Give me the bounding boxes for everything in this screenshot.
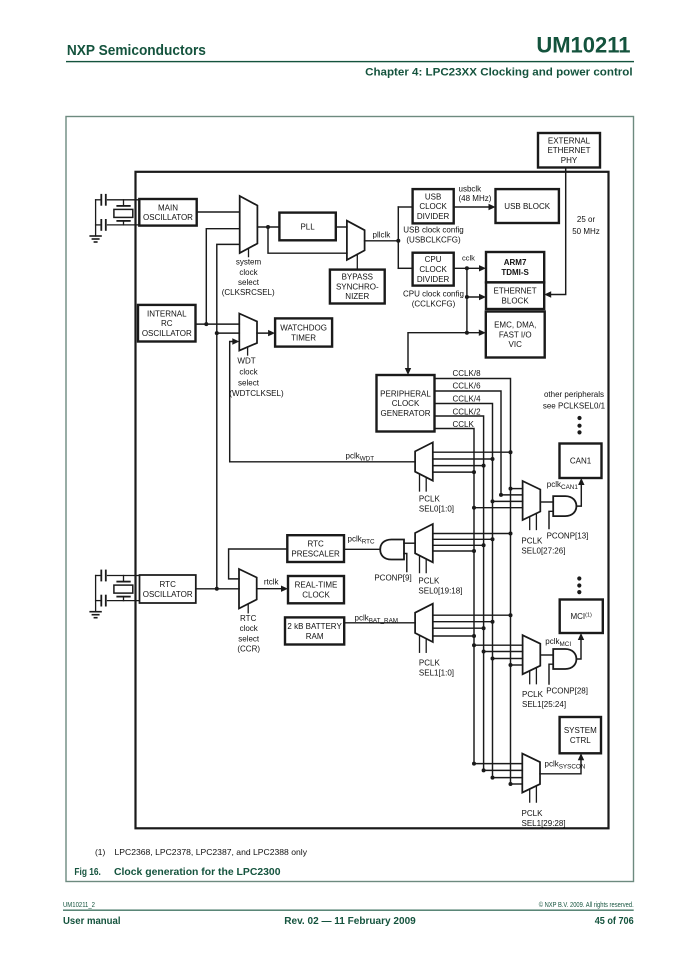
svg-text:RC: RC: [161, 319, 173, 328]
svg-text:(CCR): (CCR): [237, 645, 260, 654]
svg-text:CLOCK: CLOCK: [302, 590, 330, 599]
svg-text:OSCILLATOR: OSCILLATOR: [143, 213, 193, 222]
capacitor C3 (RTC osc top): [101, 571, 106, 581]
wire PCLKSEL0_19_18 mux to AND: [404, 542, 415, 544]
svg-text:clock: clock: [239, 367, 258, 376]
arrow into EMC: [479, 330, 486, 336]
wire MCI pclk mux in2: [484, 651, 523, 653]
figure frame: [66, 117, 634, 882]
box INTERNAL RC OSCILLATOR: [138, 305, 196, 342]
svg-text:OSCILLATOR: OSCILLATOR: [142, 329, 192, 338]
svg-text:VIC: VIC: [509, 340, 523, 349]
svg-text:pclkWDT: pclkWDT: [346, 451, 375, 462]
wire rtc_osc to CCR mux: [196, 588, 239, 590]
svg-text:BLOCK: BLOCK: [502, 297, 530, 306]
wire usbclk to USB BLOCK: [454, 206, 492, 208]
box ETHERNET BLOCK: [486, 282, 544, 309]
svg-text:Rev. 02 — 11 February 2009: Rev. 02 — 11 February 2009: [284, 916, 416, 927]
junction wdt in3: [482, 464, 486, 468]
svg-text:RAM: RAM: [306, 632, 324, 641]
crystal X1 (main oscillator): [114, 200, 133, 225]
box EMC DMA FAST I/O VIC: [486, 312, 545, 358]
svg-text:PCONP[28]: PCONP[28]: [546, 687, 588, 696]
junction cclk arm7: [465, 266, 469, 270]
junction bat in4: [472, 634, 476, 638]
junction syscon in2: [482, 768, 486, 772]
svg-text:ARM7: ARM7: [504, 258, 527, 267]
svg-text:PCLK: PCLK: [521, 536, 543, 545]
wire RTC pclk mux in1: [433, 533, 511, 535]
wire WDT pclk mux in2: [433, 458, 493, 460]
svg-text:pllclk: pllclk: [373, 230, 392, 239]
wire sysclk bypass to PLL-select mux: [268, 227, 347, 253]
junction rtcp in3: [482, 543, 486, 547]
wire pllclk vertical: [397, 207, 399, 268]
svg-text:pclkCAN1: pclkCAN1: [547, 480, 579, 491]
arrow pclkCAN1 into CAN1: [578, 478, 584, 485]
wire MCI pclk mux in3: [493, 658, 523, 660]
svg-text:25 or: 25 or: [577, 215, 596, 224]
junction rtcp in4: [472, 549, 476, 553]
junction pllclk: [396, 239, 400, 243]
junction rtcp in1: [509, 532, 513, 536]
junction bat in1: [509, 613, 513, 617]
wire PCONP28 input: [549, 664, 553, 684]
svg-text:WDT: WDT: [237, 357, 255, 366]
wire irc_osc output: [196, 323, 240, 325]
wire CCLK/4: [435, 404, 493, 778]
AND gate (PCONP[13] CAN1): [553, 496, 576, 516]
wire PLL output to PLL-select mux: [336, 226, 347, 228]
wire cclk vertical: [466, 268, 468, 332]
svg-text:BYPASS: BYPASS: [342, 273, 373, 282]
mux: PCLK SEL0[27:26] (CAN1 pclk): [523, 481, 541, 530]
wire RTCX1/RTCX2 rails: [96, 576, 140, 612]
junction can in3: [491, 499, 495, 503]
wire BAT pclk mux in4: [433, 635, 474, 637]
svg-text:45 of 706: 45 of 706: [595, 916, 634, 927]
wire MCI pclk mux in4: [511, 664, 523, 666]
wire main_osc to CLKSRCSEL mux: [197, 211, 240, 213]
svg-text:pclkSYSCON: pclkSYSCON: [545, 760, 586, 771]
svg-text:MAIN: MAIN: [158, 203, 178, 212]
svg-text:RTC: RTC: [240, 614, 257, 623]
svg-text:PCLK: PCLK: [419, 494, 441, 503]
svg-text:clock: clock: [239, 268, 258, 277]
wire pclkBAT_RAM: [344, 622, 415, 624]
wire CAN pclk mux in4: [474, 507, 523, 509]
wire CAN pclk mux in2: [501, 494, 523, 496]
wire pclkWDT: [230, 342, 415, 462]
wire SYSCON pclk mux in3: [493, 777, 523, 779]
svg-text:SEL1[25:24]: SEL1[25:24]: [522, 700, 566, 709]
wire RTC pclk mux in2: [433, 538, 493, 540]
svg-text:(1): (1): [95, 847, 105, 857]
junction wdt in1: [509, 450, 513, 454]
junction mci in1: [472, 643, 476, 647]
mux: system clock select (CLKSRCSEL): [240, 196, 258, 257]
box CPU CLOCK DIVIDER: [413, 253, 454, 286]
svg-text:select: select: [238, 378, 260, 387]
junction mci in2: [482, 650, 486, 654]
mux: RTC clock select (CCR): [239, 569, 257, 613]
svg-text:SYNCHRO-: SYNCHRO-: [336, 282, 379, 291]
wire WDT pclk mux in3: [433, 465, 484, 467]
junction rtc osc: [215, 587, 219, 591]
svg-text:PCLK: PCLK: [418, 576, 440, 585]
svg-text:OSCILLATOR: OSCILLATOR: [143, 590, 193, 599]
svg-text:CCLK/8: CCLK/8: [453, 369, 482, 378]
svg-text:EMC, DMA,: EMC, DMA,: [494, 321, 536, 330]
svg-text:PCLK: PCLK: [419, 659, 441, 668]
svg-text:REAL-TIME: REAL-TIME: [295, 581, 338, 590]
wire rtc branch to WDTCLKSEL: [217, 332, 240, 334]
svg-text:2 kB BATTERY: 2 kB BATTERY: [287, 622, 342, 631]
wire PCONP9 input: [404, 554, 407, 572]
wire pllclk to CPU clock divider: [398, 267, 412, 269]
svg-text:CLOCK: CLOCK: [392, 399, 420, 408]
svg-text:system: system: [236, 258, 262, 267]
box ARM7 TDMI-S: [486, 252, 544, 282]
box EXTERNAL ETHERNET PHY: [538, 133, 600, 168]
svg-text:PLL: PLL: [300, 222, 315, 231]
AND gate (PCONP[9] RTC): [380, 540, 404, 560]
svg-text:PHY: PHY: [561, 156, 578, 165]
wire irc_osc branch up to CLKSRCSEL: [206, 229, 239, 324]
svg-text:other peripherals: other peripherals: [544, 390, 604, 399]
header and footer: [63, 33, 634, 928]
arrow into USB BLOCK: [489, 204, 496, 210]
crystal X2 (RTC oscillator): [114, 576, 133, 601]
svg-text:CCLK/4: CCLK/4: [453, 395, 482, 404]
box RTC OSCILLATOR: [140, 575, 196, 603]
svg-text:pclkMCI: pclkMCI: [545, 637, 571, 648]
box USB CLOCK DIVIDER: [413, 189, 454, 223]
junction wdt in4: [472, 470, 476, 474]
box BYPASS SYNCHRONIZER: [330, 270, 385, 304]
box CAN1: [560, 444, 602, 479]
svg-text:CAN1: CAN1: [570, 457, 592, 466]
junction bat in3: [482, 626, 486, 630]
LPC2300 chip boundary: [136, 172, 609, 829]
wire RTC PRESCALER to CCR mux: [229, 549, 288, 579]
wire pclkSYSCON: [540, 757, 581, 774]
arrow into WATCHDOG TIMER: [268, 330, 275, 336]
svg-text:CPU: CPU: [425, 255, 442, 264]
svg-text:USB clock config: USB clock config: [403, 226, 463, 235]
junction bat in2: [491, 620, 495, 624]
wire wdtclk to WATCHDOG TIMER: [257, 332, 272, 334]
svg-text:rtclk: rtclk: [264, 578, 280, 587]
arrow pclkMCI into MCI: [578, 633, 584, 640]
wire CCLK/6: [435, 391, 502, 495]
junction can in1: [509, 487, 513, 491]
wire pclkMCI: [576, 637, 581, 660]
box MCI: [560, 600, 603, 634]
wire sysclk to PLL: [257, 226, 279, 228]
box USB BLOCK: [496, 189, 559, 223]
mux: PCLK SEL1[1:0] (BAT RAM pclk): [415, 604, 433, 653]
junction wdt in2: [491, 457, 495, 461]
svg-text:TIMER: TIMER: [291, 333, 316, 342]
wire WDT pclk mux in1: [433, 451, 511, 453]
AND gate (PCONP[28] MCI): [553, 649, 576, 669]
svg-text:Clock generation for the LPC23: Clock generation for the LPC2300: [114, 867, 281, 878]
svg-text:SEL1[29:28]: SEL1[29:28]: [522, 819, 566, 828]
wire pllclk to USB clock divider: [398, 206, 412, 208]
svg-text:NIZER: NIZER: [345, 292, 369, 301]
svg-text:DIVIDER: DIVIDER: [417, 212, 450, 221]
wire cclk to ETHERNET BLOCK: [467, 296, 484, 298]
svg-text:(48 MHz): (48 MHz): [459, 194, 492, 203]
svg-text:UM10211: UM10211: [536, 33, 630, 58]
ground (main osc): [90, 236, 101, 242]
mux: PCLK SEL0[1:0] (WDT pclk): [415, 442, 433, 491]
wire RTC pclk mux in3: [433, 544, 484, 546]
svg-text:ETHERNET: ETHERNET: [547, 146, 590, 155]
svg-text:PERIPHERAL: PERIPHERAL: [380, 389, 431, 398]
junction mci in4: [509, 663, 513, 667]
wire CAN pclk mux in3: [493, 500, 523, 502]
svg-text:GENERATOR: GENERATOR: [381, 409, 431, 418]
wire CCLK: [435, 429, 475, 764]
arrow into ETHERNET BLOCK left: [479, 294, 486, 300]
svg-text:RTC: RTC: [160, 580, 177, 589]
box PLL: [279, 213, 335, 241]
wire pllclk: [365, 240, 399, 242]
box WATCHDOG TIMER: [275, 318, 332, 346]
wire MCI pclk mux in1: [474, 644, 523, 646]
box MAIN OSCILLATOR: [139, 199, 196, 226]
box REAL-TIME CLOCK: [288, 576, 344, 603]
svg-text:USB BLOCK: USB BLOCK: [504, 202, 550, 211]
svg-text:USB: USB: [425, 192, 441, 201]
svg-text:CLOCK: CLOCK: [419, 202, 447, 211]
capacitor C1 (main osc top): [101, 195, 106, 205]
svg-text:TDMI-S: TDMI-S: [501, 268, 529, 277]
capacitor C2 (main osc bottom): [101, 220, 106, 230]
wire CCLK/2: [435, 416, 484, 770]
svg-text:(USBCLKCFG): (USBCLKCFG): [406, 235, 461, 244]
svg-text:(CCLKCFG): (CCLKCFG): [412, 299, 456, 308]
svg-text:SEL0[1:0]: SEL0[1:0]: [419, 505, 454, 514]
svg-text:RTC: RTC: [307, 540, 324, 549]
mux: PCLK SEL1[25:24] (MCI pclk): [523, 635, 541, 684]
wire pclkRTC AND to RTC PRESCALER: [344, 548, 380, 550]
wire rtc_osc branch up to CLKSRCSEL: [217, 244, 240, 588]
wire cclk to ARM7: [454, 267, 482, 269]
svg-text:select: select: [238, 278, 260, 287]
svg-text:see PCLKSEL0/1: see PCLKSEL0/1: [543, 401, 606, 410]
svg-text:UM10211_2: UM10211_2: [63, 902, 95, 909]
mux: PCLK SEL0[19:18] (RTC pclk): [415, 524, 433, 573]
wire cclk to EMC and peripheral clock generator: [408, 333, 483, 372]
wire BAT pclk mux in2: [433, 621, 493, 623]
arrow pclkSYSCON into SYSTEM CTRL: [578, 753, 584, 760]
svg-text:EXTERNAL: EXTERNAL: [548, 136, 591, 145]
wire SYSCON pclk mux in1: [474, 763, 522, 765]
svg-text:PCONP[13]: PCONP[13]: [547, 531, 589, 540]
svg-text:PCLK: PCLK: [522, 809, 544, 818]
svg-text:WATCHDOG: WATCHDOG: [280, 324, 327, 333]
svg-text:DIVIDER: DIVIDER: [417, 275, 450, 284]
svg-text:PRESCALER: PRESCALER: [291, 549, 340, 558]
svg-text:User manual: User manual: [63, 916, 121, 927]
arrow into REAL-TIME CLOCK: [281, 586, 288, 592]
svg-text:© NXP B.V. 2009. All rights re: © NXP B.V. 2009. All rights reserved.: [539, 901, 634, 909]
mux: WDT clock select (WDTCLKSEL): [239, 314, 257, 356]
svg-text:SEL0[27:26]: SEL0[27:26]: [521, 547, 565, 556]
svg-text:PCLK: PCLK: [522, 690, 544, 699]
svg-text:select: select: [238, 634, 260, 643]
junction cclk eth: [465, 295, 469, 299]
junction syscon in4: [509, 782, 513, 786]
junction rtc wdt: [215, 331, 219, 335]
svg-text:50 MHz: 50 MHz: [572, 227, 600, 236]
junction can in2: [499, 493, 503, 497]
wire BAT pclk mux in3: [433, 627, 484, 629]
svg-text:clock: clock: [240, 624, 259, 633]
wire rtclk to REAL-TIME CLOCK: [257, 588, 285, 590]
svg-text:CLOCK: CLOCK: [419, 265, 447, 274]
svg-text:(WDTCLKSEL): (WDTCLKSEL): [229, 389, 284, 398]
svg-text:SEL1[1:0]: SEL1[1:0]: [419, 669, 454, 678]
arrow into ARM7: [479, 265, 486, 271]
svg-text:CTRL: CTRL: [570, 736, 591, 745]
wire BAT pclk mux in1: [433, 614, 511, 616]
svg-text:INTERNAL: INTERNAL: [147, 309, 187, 318]
ground (RTC osc): [90, 612, 101, 618]
wire CAN pclk mux in1: [511, 488, 523, 490]
svg-text:SEL0[19:18]: SEL0[19:18]: [418, 587, 462, 596]
mux: PCLK SEL1[29:28] (SYSCON pclk): [522, 754, 540, 803]
arrow pclkWDT into WDTCLKSEL mux: [232, 338, 239, 344]
svg-text:FAST I/O: FAST I/O: [499, 330, 532, 339]
junction mci in3: [491, 657, 495, 661]
svg-text:LPC2368, LPC2378, LPC2387, and: LPC2368, LPC2378, LPC2387, and LPC2388 o…: [115, 847, 308, 857]
svg-text:CCLK: CCLK: [453, 420, 475, 429]
svg-text:(CLKSRCSEL): (CLKSRCSEL): [222, 288, 275, 297]
box SYSTEM CTRL: [560, 717, 601, 753]
svg-text:ETHERNET: ETHERNET: [494, 287, 537, 296]
wire SYSCON pclk mux in4: [511, 783, 523, 785]
mux: PLL select: [347, 221, 365, 270]
svg-text:usbclk: usbclk: [459, 185, 483, 194]
wire PCONP13 input: [549, 511, 553, 528]
box PERIPHERAL CLOCK GENERATOR: [377, 375, 435, 432]
node other-peripherals dots lower: [577, 576, 581, 594]
junction cclk emc: [465, 331, 469, 335]
box RTC PRESCALER: [287, 535, 344, 562]
wire CAN mux to AND: [540, 501, 553, 503]
svg-text:cclk: cclk: [462, 253, 475, 262]
capacitor C4 (RTC osc bottom): [101, 596, 106, 606]
arrow from PHY into ETHERNET BLOCK: [544, 291, 551, 297]
junction rtcp in2: [491, 537, 495, 541]
wire SYSCON pclk mux in2: [484, 769, 523, 771]
svg-text:Chapter 4: LPC23XX Clocking an: Chapter 4: LPC23XX Clocking and power co…: [365, 67, 633, 79]
junction syscon in3: [491, 776, 495, 780]
junction syscon in1: [472, 762, 476, 766]
svg-text:CCLK/2: CCLK/2: [453, 407, 482, 416]
svg-text:pclkRTC: pclkRTC: [348, 535, 376, 546]
svg-text:CPU clock config: CPU clock config: [403, 290, 464, 299]
node other-peripherals dots upper: [577, 416, 581, 435]
wire RTC pclk mux in4: [433, 550, 474, 552]
wire WDT pclk mux in4: [433, 471, 474, 473]
wire MCI mux to AND: [540, 654, 553, 656]
junction sysclk bypass: [266, 225, 270, 229]
box 2 kB BATTERY RAM: [285, 617, 344, 644]
svg-text:Fig 16.: Fig 16.: [74, 867, 101, 878]
junction irc: [204, 322, 208, 326]
svg-text:SYSTEM: SYSTEM: [564, 726, 597, 735]
arrow into PERIPHERAL CLOCK GENERATOR: [405, 368, 411, 375]
wire CCLK/8: [435, 379, 511, 785]
wire XTAL1/XTAL2 rails (main): [96, 200, 140, 236]
wire PHY to ETHERNET BLOCK: [548, 168, 566, 295]
junction can in4: [472, 506, 476, 510]
svg-text:NXP Semiconductors: NXP Semiconductors: [67, 42, 206, 59]
svg-text:PCONP[9]: PCONP[9]: [374, 574, 411, 583]
wire pclkCAN1: [576, 482, 581, 507]
svg-text:CCLK/6: CCLK/6: [453, 382, 482, 391]
